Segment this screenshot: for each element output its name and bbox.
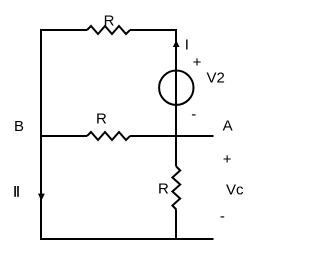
wire: top horizontal right segment and right corner down through V2 (130, 30, 176, 167)
arrow I (current up, on right branch) (173, 40, 180, 47)
svg-text:I: I (185, 37, 189, 54)
svg-text:-: - (191, 106, 196, 123)
resistor R1 (top) (87, 26, 130, 34)
svg-text:R: R (96, 110, 107, 127)
arrow II (current down, on left branch) (38, 194, 45, 201)
svg-text:R: R (104, 12, 115, 29)
voltage source V2 (circle) (159, 71, 193, 105)
svg-text:+: + (223, 151, 232, 168)
wire: middle horizontal right segment to node A (130, 135, 214, 137)
wire: right vertical lower (below R3) (175, 210, 177, 240)
resistor R2 (middle) (87, 132, 130, 140)
wire: bottom horizontal (40, 238, 214, 240)
svg-text:A: A (223, 118, 233, 135)
svg-text:V2: V2 (207, 69, 225, 86)
svg-text:+: + (193, 54, 202, 71)
label Il (14, 186, 16, 197)
svg-text:Vc: Vc (226, 182, 244, 199)
svg-text:B: B (14, 118, 24, 135)
resistor R3 (right vertical) (172, 167, 180, 210)
svg-text:R: R (158, 181, 169, 198)
wire: left vertical and top-left corner (41, 30, 87, 239)
wire: middle horizontal left segment (41, 135, 87, 137)
svg-text:-: - (220, 208, 225, 225)
